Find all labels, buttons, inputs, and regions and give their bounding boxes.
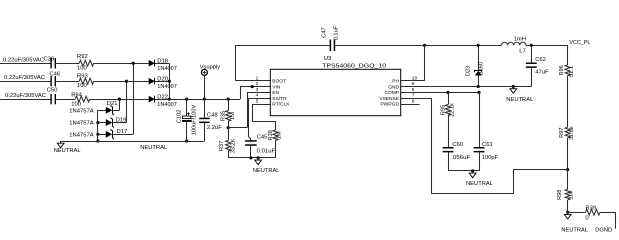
svg-text:R97: R97 — [559, 128, 565, 138]
svg-text:10k: 10k — [569, 190, 575, 199]
svg-text:C47: C47 — [321, 27, 327, 37]
svg-text:0.22uF/305VAC: 0.22uF/305VAC — [5, 93, 46, 99]
svg-text:R96: R96 — [559, 65, 565, 75]
svg-text:1N4007: 1N4007 — [157, 84, 177, 90]
svg-text:1N4007: 1N4007 — [157, 102, 177, 108]
svg-text:0.01uF: 0.01uF — [257, 149, 276, 155]
svg-text:R35: R35 — [220, 111, 226, 121]
svg-text:C62: C62 — [535, 57, 546, 63]
svg-text:100uF/100V: 100uF/100V — [192, 104, 198, 135]
svg-text:.056uF: .056uF — [451, 155, 470, 161]
svg-text:NEUTRAL: NEUTRAL — [140, 145, 168, 151]
svg-text:D17: D17 — [117, 129, 128, 135]
svg-text:2.2uF: 2.2uF — [207, 125, 222, 131]
svg-text:R92: R92 — [77, 54, 88, 60]
svg-text:C50: C50 — [47, 87, 58, 93]
svg-text:100: 100 — [71, 101, 82, 107]
svg-text:33.2K: 33.2K — [231, 138, 237, 153]
svg-text:NEUTRAL: NEUTRAL — [54, 148, 82, 154]
svg-text:D23: D23 — [466, 66, 472, 76]
svg-text:1N4757A: 1N4757A — [69, 132, 93, 138]
svg-text:R95: R95 — [441, 105, 447, 115]
svg-text:1mH: 1mH — [514, 36, 526, 42]
svg-text:VCC_PL: VCC_PL — [569, 40, 591, 46]
svg-text:L7: L7 — [519, 48, 526, 54]
svg-text:7: 7 — [412, 93, 415, 99]
svg-text:BOOT: BOOT — [272, 79, 286, 85]
svg-text:NEUTRAL: NEUTRAL — [506, 97, 534, 103]
svg-text:3: 3 — [256, 87, 259, 93]
svg-text:0.1uF: 0.1uF — [334, 25, 340, 40]
svg-text:Vsupply: Vsupply — [200, 64, 221, 70]
svg-text:D21: D21 — [107, 101, 118, 107]
svg-text:GND: GND — [388, 84, 399, 90]
svg-text:PWRGD: PWRGD — [380, 102, 399, 108]
svg-text:1M: 1M — [230, 112, 236, 120]
svg-text:R37: R37 — [219, 141, 225, 151]
svg-text:47uF: 47uF — [535, 70, 549, 76]
svg-text:R38: R38 — [268, 130, 274, 140]
svg-text:0.22uF/305VAC: 0.22uF/305VAC — [3, 58, 44, 64]
svg-text:100: 100 — [77, 83, 88, 89]
svg-text:D22: D22 — [157, 95, 168, 101]
svg-text:51.1: 51.1 — [569, 66, 575, 77]
svg-text:R93: R93 — [77, 73, 88, 79]
svg-text:EN: EN — [272, 90, 279, 96]
svg-text:0.22uF/305VAC: 0.22uF/305VAC — [4, 75, 45, 81]
svg-text:1: 1 — [256, 75, 259, 81]
svg-text:1N4757A: 1N4757A — [69, 108, 93, 114]
svg-text:1M: 1M — [277, 131, 283, 139]
svg-text:31.6k: 31.6k — [569, 126, 575, 140]
svg-text:DGND: DGND — [595, 227, 612, 233]
svg-text:TPS54060_DGQ_10: TPS54060_DGQ_10 — [322, 63, 386, 69]
svg-text:D19: D19 — [116, 117, 127, 123]
svg-text:100: 100 — [77, 65, 88, 71]
svg-text:R39: R39 — [585, 205, 596, 211]
svg-text:VIN: VIN — [272, 84, 281, 90]
svg-text:U3: U3 — [324, 56, 332, 62]
svg-text:1N4007: 1N4007 — [157, 66, 177, 72]
svg-text:PH: PH — [392, 79, 399, 85]
svg-text:VSENSE: VSENSE — [379, 96, 399, 102]
svg-text:C39: C39 — [44, 57, 55, 63]
svg-text:22.1k: 22.1k — [449, 103, 455, 117]
svg-text:4: 4 — [256, 93, 259, 99]
svg-text:C46: C46 — [49, 72, 60, 78]
svg-text:C102: C102 — [176, 110, 182, 124]
svg-text:NEUTRAL: NEUTRAL — [561, 227, 588, 233]
svg-text:D18: D18 — [157, 59, 168, 65]
svg-text:NEUTRAL: NEUTRAL — [253, 168, 280, 174]
svg-text:5: 5 — [256, 99, 259, 105]
svg-text:6: 6 — [412, 99, 415, 105]
svg-text:RT/CLK: RT/CLK — [272, 102, 290, 108]
svg-text:COMP: COMP — [384, 90, 399, 96]
svg-text:R94: R94 — [71, 93, 82, 99]
svg-text:D20: D20 — [157, 77, 168, 83]
svg-text:R98: R98 — [557, 190, 563, 200]
svg-text:C61: C61 — [482, 142, 493, 148]
svg-text:SS/TR: SS/TR — [272, 96, 287, 102]
svg-text:C48: C48 — [207, 112, 218, 118]
svg-text:C45: C45 — [257, 135, 268, 141]
svg-text:100pF: 100pF — [482, 155, 498, 161]
svg-text:NEUTRAL: NEUTRAL — [466, 181, 494, 187]
svg-text:C60: C60 — [452, 142, 463, 148]
svg-text:B160: B160 — [479, 62, 485, 75]
svg-text:2: 2 — [256, 81, 259, 87]
svg-text:1N4757A: 1N4757A — [69, 121, 93, 127]
